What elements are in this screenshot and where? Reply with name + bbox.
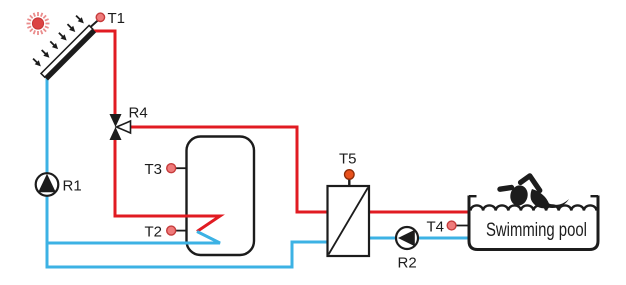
arrow 6: [74, 14, 86, 26]
svg-text:T3: T3: [145, 161, 163, 178]
pool water line: [471, 205, 597, 210]
solar collector panel: [41, 25, 96, 80]
swimmer: [500, 176, 569, 208]
sun: [27, 12, 50, 35]
wire: collector hot out to valve (red): [93, 31, 116, 115]
svg-text:T4: T4: [427, 219, 445, 236]
svg-text:R4: R4: [129, 105, 148, 122]
sensor T2: [145, 223, 188, 240]
wire: pool return through pump R2 (blue): [368, 237, 469, 240]
arrow 4: [57, 31, 69, 43]
tank (storage tank): [187, 137, 255, 256]
sensor T3: [145, 161, 188, 178]
svg-text:T2: T2: [145, 223, 163, 240]
svg-text:R1: R1: [63, 178, 82, 195]
sensor T1: [96, 13, 104, 21]
sensor T5: [339, 151, 357, 188]
heat exchanger: [328, 186, 370, 256]
pump R1 (collector pump): [36, 173, 82, 196]
stub from collector to sensor T1: [91, 20, 99, 27]
arrow 5: [65, 22, 77, 34]
wire: heat exchanger to pool (red): [368, 211, 469, 214]
wire: heat exchanger out, bottom run, riser to collector (blue): [47, 78, 329, 267]
arrow 2: [40, 48, 52, 60]
sensor T4: [427, 219, 470, 236]
svg-text:R2: R2: [398, 255, 417, 272]
svg-text:Swimming pool: Swimming pool: [486, 220, 587, 241]
swimming pool basin: [469, 196, 598, 250]
pump R2 (pool pump): [396, 227, 418, 272]
arrow 1: [31, 57, 43, 69]
arrow 3: [48, 39, 60, 51]
wire: valve to heat exchanger (red): [130, 127, 329, 212]
svg-text:T5: T5: [339, 151, 357, 168]
wire: tank coil out to collector return (blue): [47, 232, 220, 244]
irradiance arrows: [31, 14, 86, 69]
svg-text:T1: T1: [108, 10, 126, 27]
valve R4 (3-way): [110, 105, 148, 141]
wire: valve to tank coil (red): [115, 139, 220, 232]
